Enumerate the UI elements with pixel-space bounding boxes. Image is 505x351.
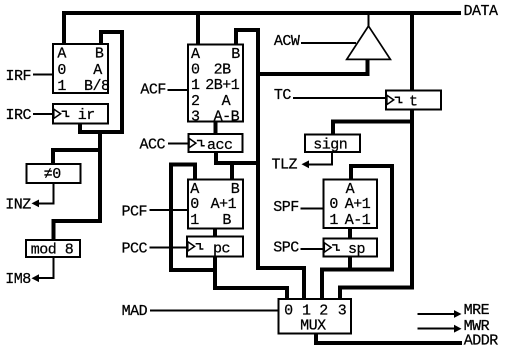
- wire PCF output into pc: [213, 224, 217, 238]
- wire branch into PCF input B: [230, 163, 234, 180]
- arrowhead IM8: [32, 274, 40, 282]
- wire branch into sign box: [333, 122, 412, 136]
- wire MWR output: [418, 328, 456, 330]
- svg-text:1: 1: [190, 212, 199, 229]
- wire SPF select line: [301, 208, 324, 210]
- wire INZ output: [39, 182, 54, 203]
- wire ir output down-trunk: [54, 130, 101, 241]
- wire buffer output to DATA bus: [368, 14, 370, 28]
- svg-text:2B+1: 2B+1: [205, 77, 240, 94]
- wire MRE output: [418, 313, 456, 315]
- svg-text:1: 1: [191, 77, 200, 94]
- svg-text:A: A: [191, 46, 200, 63]
- svg-text:0: 0: [190, 196, 199, 213]
- register acc: [188, 134, 242, 152]
- svg-text:IRC: IRC: [6, 107, 32, 124]
- svg-text:SPF: SPF: [273, 199, 299, 216]
- svg-text:acc: acc: [207, 137, 233, 154]
- arrowhead MRE: [454, 310, 462, 318]
- svg-text:ACF: ACF: [140, 82, 166, 99]
- svg-text:3: 3: [338, 302, 347, 319]
- svg-text:0: 0: [329, 196, 338, 213]
- wire ACC clock line: [168, 143, 189, 145]
- svg-text:B: B: [95, 46, 104, 63]
- tri-state buffer ACW driver: [347, 26, 391, 59]
- svg-text:INZ: INZ: [5, 196, 31, 213]
- svg-text:ir: ir: [78, 107, 95, 124]
- svg-text:B: B: [231, 46, 240, 63]
- mux PCF (program counter function select): [188, 179, 243, 228]
- wire branch to zero-test box: [53, 150, 100, 165]
- wire acc output elbow: [216, 151, 258, 163]
- comparator not-equal-zero: [26, 164, 80, 183]
- svg-text:MAD: MAD: [122, 303, 148, 320]
- mux SPF (stack pointer function select): [324, 179, 378, 228]
- svg-text:2: 2: [191, 93, 200, 110]
- svg-text:1: 1: [329, 212, 338, 229]
- mux ACF (accumulator function select): [188, 45, 243, 122]
- register pc: [187, 237, 243, 257]
- wire DATA bus with drop into IRF input A: [64, 13, 461, 46]
- svg-text:ACW: ACW: [274, 33, 300, 50]
- wire PCF select line: [150, 209, 190, 211]
- svg-text:t: t: [409, 94, 418, 111]
- svg-text:PCF: PCF: [122, 203, 148, 220]
- svg-text:A: A: [57, 46, 66, 63]
- clock input marker of ir: [54, 109, 61, 118]
- svg-text:A-1: A-1: [345, 212, 371, 229]
- clock input marker of pc: [188, 242, 195, 251]
- wire sp output stub: [348, 255, 352, 271]
- function sign: [305, 134, 360, 152]
- wire MAD select line: [150, 309, 279, 311]
- svg-text:MRE: MRE: [464, 302, 490, 319]
- svg-text:IM8: IM8: [5, 271, 31, 288]
- svg-text:DATA: DATA: [464, 3, 499, 20]
- svg-text:B/8: B/8: [84, 78, 110, 95]
- svg-text:≠0: ≠0: [44, 166, 62, 183]
- svg-text:3: 3: [191, 109, 200, 126]
- svg-text:0: 0: [284, 302, 293, 319]
- wire IRF select line: [33, 74, 53, 76]
- wire IM8 output: [39, 256, 53, 278]
- svg-text:ACC: ACC: [140, 137, 166, 154]
- svg-text:0: 0: [57, 62, 66, 79]
- svg-text:sign: sign: [313, 136, 347, 153]
- svg-text:A: A: [93, 62, 102, 79]
- clock input marker of t: [387, 95, 394, 104]
- function mod 8: [26, 240, 80, 257]
- arrowhead TLZ: [302, 160, 310, 168]
- svg-text:IRF: IRF: [6, 68, 32, 85]
- register t: [386, 91, 441, 110]
- wire ir feedback loop into IRF input B: [80, 32, 122, 132]
- svg-text:A+1: A+1: [211, 196, 237, 213]
- wire TC clock line: [293, 97, 386, 99]
- svg-text:SPC: SPC: [273, 239, 299, 256]
- register sp: [324, 239, 378, 257]
- svg-text:PCC: PCC: [122, 240, 148, 257]
- wire acc feedback trunk to ACF input B: [236, 30, 258, 270]
- mux IRF (instruction register input select): [53, 44, 108, 93]
- clock input marker of sp: [324, 243, 331, 252]
- arrowhead MWR: [454, 325, 462, 333]
- svg-text:A: A: [222, 93, 231, 110]
- svg-text:B: B: [222, 212, 231, 229]
- svg-text:TLZ: TLZ: [272, 156, 298, 173]
- svg-text:MUX: MUX: [300, 318, 326, 335]
- wire ACW enable line: [301, 42, 356, 44]
- svg-text:A-B: A-B: [214, 109, 240, 126]
- wire sp feedback to SPF input A and MUX input 2: [322, 166, 392, 301]
- wire SPF output into sp: [348, 227, 352, 240]
- svg-text:1: 1: [57, 78, 66, 95]
- svg-text:ADDR: ADDR: [464, 333, 499, 350]
- wire SPC clock line: [301, 248, 324, 250]
- svg-text:0: 0: [191, 61, 200, 78]
- svg-text:pc: pc: [213, 241, 230, 258]
- svg-text:TC: TC: [274, 87, 292, 104]
- wire PCC clock line: [150, 246, 189, 248]
- wire DATA bus drop into ACF input A: [196, 12, 200, 46]
- wire t output to MUX input 3: [340, 108, 412, 301]
- wire acc trunk tee to ACW buffer: [258, 58, 368, 74]
- wire acc trunk into MUX input 1: [258, 268, 304, 301]
- wire TLZ output: [309, 151, 332, 164]
- wire ACF select line: [168, 89, 190, 91]
- wire ACF output into acc: [214, 120, 218, 136]
- clock input marker of acc: [189, 138, 196, 147]
- svg-text:2B: 2B: [214, 61, 232, 78]
- svg-text:A+1: A+1: [345, 196, 371, 213]
- register ir: [53, 104, 108, 124]
- wire pc output to MUX input 0: [215, 255, 287, 301]
- wire DATA bus drop into t register: [410, 12, 414, 91]
- svg-text:sp: sp: [348, 241, 365, 258]
- arrowhead INZ: [32, 200, 40, 208]
- svg-text:mod 8: mod 8: [31, 242, 74, 259]
- wire MUX output ADDR bus: [316, 332, 462, 343]
- mux MAD address MUX: [279, 299, 352, 334]
- wire IRC clock line: [33, 113, 54, 115]
- wire pc feedback to PCF input A: [171, 165, 214, 271]
